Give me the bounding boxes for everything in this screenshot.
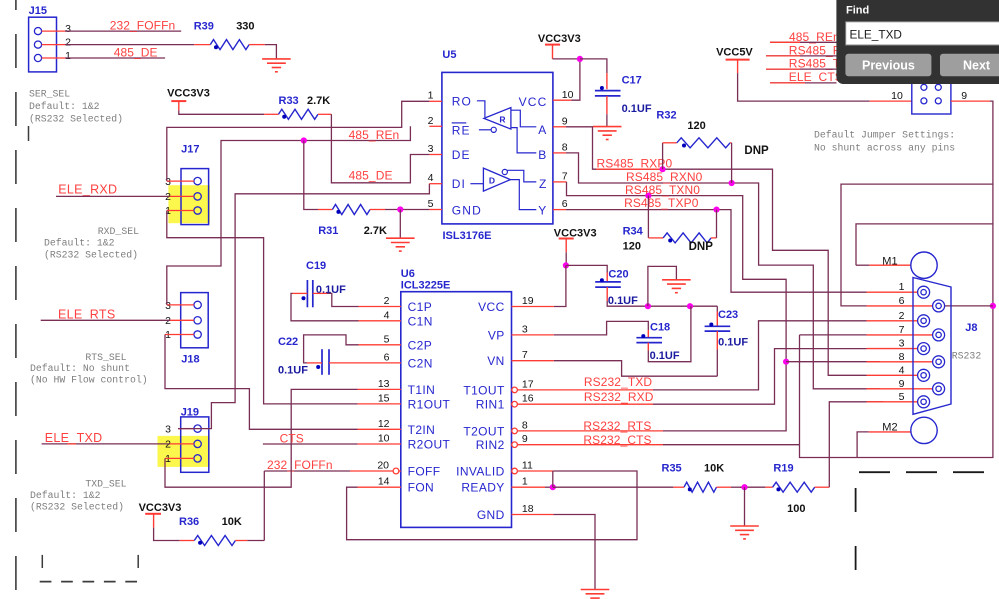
- sheet border tick B bottom: [137, 555, 139, 568]
- wire 485_REn stub top right: [770, 41, 837, 43]
- svg-text:(No HW Flow control): (No HW Flow control): [30, 375, 148, 386]
- svg-text:C18: C18: [650, 321, 670, 333]
- wire ground rail to C23 top: [716, 306, 718, 311]
- svg-text:11: 11: [522, 460, 533, 472]
- connector J18: [181, 293, 209, 348]
- J8 pin 1 stub: [867, 291, 918, 293]
- svg-text:ELE_CTS: ELE_CTS: [789, 70, 843, 84]
- svg-text:Previous: Previous: [862, 59, 915, 73]
- wire jumper pin9 staircase to J8 pin6: [841, 101, 993, 306]
- find dialog input box: [846, 22, 999, 45]
- J19 pin2 stub: [170, 443, 194, 445]
- svg-text:J15: J15: [29, 5, 47, 17]
- svg-text:RE: RE: [452, 124, 471, 138]
- svg-text:2: 2: [428, 115, 434, 127]
- svg-text:3: 3: [165, 176, 171, 188]
- wire VCC5V to jumper pin10: [738, 73, 870, 101]
- svg-text:10K: 10K: [704, 462, 724, 474]
- resistor R35: [673, 486, 684, 488]
- svg-text:5: 5: [899, 391, 905, 403]
- J8 pin 4 circle: [918, 369, 930, 381]
- svg-text:7: 7: [899, 324, 905, 336]
- svg-text:2: 2: [899, 310, 905, 322]
- svg-text:U6: U6: [401, 268, 415, 280]
- J8 pin 4 stub: [867, 374, 918, 376]
- svg-text:10: 10: [378, 433, 390, 445]
- svg-text:RS232_CTS: RS232_CTS: [583, 433, 651, 447]
- junction RTS TXN0 at J8 pin8: [783, 359, 789, 365]
- svg-text:485_DE: 485_DE: [114, 45, 158, 59]
- svg-text:4: 4: [384, 309, 390, 321]
- wire U6 GND to ground: [553, 515, 595, 590]
- junction RXP0 at R32: [660, 166, 666, 172]
- svg-text:Default Jumper Settings:: Default Jumper Settings:: [814, 130, 955, 141]
- svg-text:R34: R34: [623, 226, 644, 238]
- J8 pin 5 stub: [867, 401, 918, 403]
- svg-text:VP: VP: [488, 328, 505, 342]
- svg-text:1: 1: [165, 205, 171, 217]
- J17 pin1 stub: [167, 210, 194, 212]
- svg-text:READY: READY: [461, 481, 504, 495]
- J8 pin 1 circle: [918, 286, 930, 298]
- svg-text:9: 9: [522, 433, 528, 445]
- svg-text:8: 8: [899, 351, 905, 363]
- svg-text:CTS: CTS: [280, 431, 304, 445]
- svg-text:D: D: [489, 175, 495, 185]
- wire C22 left to U6 C2P: [307, 362, 322, 364]
- svg-text:18: 18: [522, 503, 534, 515]
- J8 pin 9 circle: [933, 383, 945, 395]
- wire M1 staircase: [992, 184, 994, 224]
- wire net 485_DE from J15.1: [65, 57, 165, 59]
- U5 receiver buffer R: [484, 108, 511, 130]
- J18 pin2 stub: [170, 319, 194, 321]
- svg-text:12: 12: [378, 418, 390, 430]
- M1 stub: [856, 264, 869, 266]
- svg-text:R39: R39: [194, 21, 214, 33]
- wire C19 right to U6 C1P: [313, 292, 327, 294]
- wire net 232_FOFFn to FOFF: [350, 470, 393, 472]
- sheet border dashed bottom-right vertical: [855, 488, 857, 599]
- svg-text:120: 120: [623, 241, 641, 253]
- U6 pin 19 stub VCC: [512, 306, 554, 308]
- wire net RS485_TXP0: [566, 210, 867, 293]
- svg-text:8: 8: [522, 419, 528, 431]
- svg-text:RS232_RXD: RS232_RXD: [584, 390, 654, 404]
- wire C22 right to U6 C2N: [329, 362, 367, 364]
- wire ELE_TXD to J19.2: [42, 443, 170, 445]
- junction VCC3V3 U6 node: [563, 262, 569, 268]
- U6 pin 2 stub C1P: [359, 306, 401, 308]
- svg-text:9: 9: [562, 115, 568, 127]
- svg-text:DE: DE: [452, 148, 471, 162]
- svg-text:5: 5: [384, 333, 390, 345]
- J8 pin 8 circle: [933, 356, 945, 368]
- wire net 485_DE R33 to U5 DE: [331, 114, 429, 183]
- svg-text:19: 19: [522, 295, 534, 307]
- wire VP to C18 top: [554, 321, 649, 335]
- svg-text:B: B: [538, 148, 546, 162]
- U6 pin 12 stub T2IN: [358, 428, 401, 430]
- U6 pin 9 RIN2 circle: [512, 442, 518, 448]
- capacitor C20: [595, 281, 621, 283]
- wire net RS485_RXP0: [566, 127, 867, 375]
- svg-text:C2N: C2N: [408, 356, 433, 370]
- svg-text:GND: GND: [477, 508, 505, 522]
- U6 pin 7 stub VN: [512, 360, 554, 362]
- svg-text:RS485_TXP0: RS485_TXP0: [624, 196, 699, 210]
- U5 pin 2 stub: [429, 125, 442, 127]
- svg-text:(RS232 Selected): (RS232 Selected): [30, 502, 124, 513]
- svg-text:Y: Y: [538, 203, 546, 217]
- svg-text:6: 6: [899, 295, 905, 307]
- svg-text:RIN2: RIN2: [476, 438, 505, 452]
- svg-text:ISL3176E: ISL3176E: [443, 230, 492, 242]
- svg-text:ELE_TXD: ELE_TXD: [850, 28, 902, 42]
- svg-text:1: 1: [899, 281, 905, 293]
- U6 pin 11 INVALID circle: [512, 468, 518, 474]
- U6 pin 16 RIN1 circle: [512, 401, 518, 407]
- wire ELE_RXD to J17.2: [56, 195, 170, 197]
- J8 pin 9 stub: [867, 388, 933, 390]
- wire net RS232_RTS to J8 pin8: [517, 430, 663, 432]
- wire 485_REn junction down to R31: [304, 141, 318, 210]
- svg-text:VCC: VCC: [478, 300, 505, 314]
- J8 pin 6 stub: [867, 305, 933, 307]
- svg-text:C1N: C1N: [408, 314, 433, 328]
- svg-text:0.1UF: 0.1UF: [718, 337, 748, 349]
- wire ELE_CTS stub: [770, 82, 837, 84]
- svg-text:2.7K: 2.7K: [364, 225, 387, 237]
- U6 pin 10 stub R2OUT: [358, 443, 401, 445]
- J8 mounting circle M1: [911, 252, 937, 278]
- U6 pin 4 stub C1N: [359, 320, 401, 322]
- svg-text:1: 1: [65, 50, 71, 62]
- svg-text:SER_SEL: SER_SEL: [29, 89, 70, 100]
- J8 pin 2 stub: [867, 320, 918, 322]
- ground at U6 GND: [581, 589, 610, 591]
- ground at R39: [262, 58, 291, 60]
- svg-text:8: 8: [562, 141, 568, 153]
- resistor R36: [180, 540, 195, 542]
- find dialog panel: [836, 0, 999, 84]
- svg-text:3: 3: [522, 323, 528, 335]
- wire J19.1 to T1IN: [165, 389, 358, 487]
- svg-text:0.1UF: 0.1UF: [278, 365, 308, 377]
- svg-text:RS232_RTS: RS232_RTS: [583, 419, 651, 433]
- svg-text:VCC: VCC: [519, 95, 548, 109]
- wire J15.2 to R39: [65, 44, 194, 46]
- svg-text:RXD_SEL: RXD_SEL: [98, 226, 139, 237]
- J19 pin3 stub: [178, 428, 194, 430]
- capacitor C23: [705, 325, 731, 327]
- ground at U5 pin5: [399, 210, 401, 238]
- svg-text:330: 330: [236, 21, 254, 33]
- svg-text:RS485_TXN0: RS485_TXN0: [625, 183, 700, 197]
- U6 pin 5 stub C2P: [359, 344, 401, 346]
- U6 pin 1 stub READY: [512, 486, 546, 488]
- wire net RS485_RXN0: [566, 153, 880, 389]
- wire J17.1 to U6 R1OUT: [167, 211, 358, 404]
- svg-text:3: 3: [165, 300, 171, 312]
- wire junction to ground: [744, 487, 746, 526]
- svg-text:DI: DI: [452, 177, 466, 191]
- svg-text:T1OUT: T1OUT: [463, 383, 505, 397]
- connector J8 body: [913, 278, 951, 415]
- J8 pin 5 circle: [918, 396, 930, 408]
- svg-text:120: 120: [687, 120, 705, 132]
- svg-text:J19: J19: [181, 406, 199, 418]
- capacitor C19: [306, 280, 308, 307]
- op-amp transceiver U5 box: [442, 72, 553, 224]
- junction TXP0 at R34: [713, 207, 719, 213]
- svg-text:Default: 1&2: Default: 1&2: [30, 490, 101, 501]
- U5 pin 4 stub: [429, 183, 442, 185]
- U5 pin 7 stub Z: [553, 181, 567, 183]
- svg-text:2.7K: 2.7K: [307, 95, 330, 107]
- wire VCC3V3 to C17: [580, 59, 607, 73]
- svg-text:C20: C20: [608, 268, 628, 280]
- junction RXN0 at R32: [729, 180, 735, 186]
- junction READY INVALID: [550, 484, 556, 490]
- wire C20 bottom to ground rail: [606, 287, 608, 301]
- wire net CTS to R2OUT: [263, 443, 358, 445]
- U6 pin 15 stub R1OUT: [358, 403, 401, 405]
- svg-text:3: 3: [899, 338, 905, 350]
- svg-text:ELE_RXD: ELE_RXD: [58, 183, 117, 197]
- svg-text:M1: M1: [882, 255, 897, 267]
- svg-text:J8: J8: [965, 322, 977, 334]
- svg-text:Default: No shunt: Default: No shunt: [30, 363, 130, 374]
- svg-text:0.1UF: 0.1UF: [316, 284, 346, 296]
- IC U6 box: [401, 292, 512, 528]
- highlight on J19 pins: [158, 436, 210, 467]
- svg-text:RS485_RXP0: RS485_RXP0: [597, 157, 673, 171]
- wire RS485 stub A: [766, 55, 837, 57]
- wire net RS485_TXN0: [567, 182, 787, 362]
- J8 pin 3 circle: [918, 343, 930, 355]
- svg-text:ELE_TXD: ELE_TXD: [45, 431, 103, 445]
- J8 pin 6 circle: [933, 300, 945, 312]
- sheet border dashed bottom-left: [40, 581, 137, 583]
- svg-text:3: 3: [165, 423, 171, 435]
- svg-text:3: 3: [65, 23, 71, 35]
- svg-text:2: 2: [384, 295, 390, 307]
- wire net RS232_CTS to J8 pin7: [517, 444, 663, 446]
- svg-text:485_DE: 485_DE: [349, 169, 393, 183]
- find dialog Next button: [940, 54, 999, 77]
- svg-text:1: 1: [522, 476, 528, 488]
- svg-text:C23: C23: [718, 309, 738, 321]
- wire net 485_REn to J18.3: [167, 126, 411, 305]
- svg-text:DNP: DNP: [689, 241, 714, 253]
- svg-text:1: 1: [165, 329, 171, 341]
- wire VCC3V3 to U6 VCC: [565, 252, 567, 265]
- svg-text:C2P: C2P: [408, 338, 433, 352]
- svg-text:R36: R36: [179, 516, 199, 528]
- svg-text:6: 6: [384, 351, 390, 363]
- wire U5 DI to J19.3: [178, 184, 429, 429]
- svg-text:Default: 1&2: Default: 1&2: [29, 101, 100, 112]
- U5 pin 10 stub: [553, 99, 571, 101]
- svg-text:10K: 10K: [222, 516, 242, 528]
- svg-text:0.1UF: 0.1UF: [608, 295, 638, 307]
- svg-text:R19: R19: [773, 462, 793, 474]
- svg-text:C17: C17: [622, 75, 642, 87]
- J8 pin 7 stub: [867, 334, 933, 336]
- jumper J16 box: [912, 81, 951, 115]
- svg-text:(RS232 Selected): (RS232 Selected): [29, 114, 123, 125]
- resistor R39: [194, 44, 210, 46]
- wire J17.3 to U5 RO: [167, 101, 430, 181]
- svg-text:J17: J17: [181, 144, 199, 156]
- U5 pin 5 stub: [429, 209, 442, 211]
- svg-text:R: R: [499, 114, 505, 124]
- junction R35 R19 ground: [741, 484, 747, 490]
- svg-text:T2IN: T2IN: [408, 423, 436, 437]
- svg-text:C22: C22: [278, 336, 298, 348]
- junction VCC3V3 node: [577, 56, 583, 62]
- wire R35 to R19: [740, 486, 765, 488]
- wire VCC3V3 to R33: [179, 110, 264, 114]
- svg-text:Find: Find: [846, 5, 869, 17]
- resistor R34 DNP: [647, 196, 649, 238]
- wire VCC3V3 to U5 VCC pin10: [553, 58, 580, 60]
- svg-text:232_FOFFn: 232_FOFFn: [267, 458, 333, 472]
- svg-text:7: 7: [522, 349, 528, 361]
- wire C17 to ground: [606, 96, 608, 114]
- junction at U5 GND: [397, 206, 403, 212]
- sheet border dashed left edge: [15, 0, 17, 599]
- svg-text:10: 10: [562, 89, 574, 101]
- connector J15: [29, 17, 57, 72]
- svg-text:Next: Next: [963, 59, 991, 73]
- svg-text:5: 5: [428, 198, 434, 210]
- svg-text:T2OUT: T2OUT: [463, 424, 505, 438]
- svg-text:6: 6: [562, 198, 568, 210]
- junction on 485_REn: [301, 137, 307, 143]
- junction ground rail B: [687, 303, 693, 309]
- wire R31 to U5 GND pin5: [385, 209, 429, 211]
- J19 pin1 stub: [165, 457, 194, 459]
- wire C19 left to U6 C1N: [293, 292, 308, 294]
- svg-text:DNP: DNP: [744, 145, 769, 157]
- wire READY to R35: [545, 486, 553, 488]
- junction at J8 pin6 right: [990, 303, 996, 309]
- U6 pin 20 FOFF circle: [393, 468, 399, 474]
- J15 pin2 stub: [42, 44, 65, 46]
- svg-text:VN: VN: [487, 354, 504, 368]
- wire INVALID loop to FON: [517, 470, 553, 472]
- jumper pin 9 stub: [951, 100, 990, 102]
- U5 pin 6 stub Y: [553, 209, 566, 211]
- junction TXN0 at R34: [645, 193, 651, 199]
- svg-text:485_REn: 485_REn: [349, 128, 400, 142]
- J15 pin3 stub: [42, 30, 65, 32]
- capacitor C22: [321, 349, 323, 375]
- svg-text:7: 7: [562, 170, 568, 182]
- svg-text:R31: R31: [318, 225, 338, 237]
- U6 pin 8 T2OUT circle: [512, 428, 518, 434]
- svg-text:9: 9: [961, 90, 967, 102]
- svg-text:J18: J18: [181, 353, 199, 365]
- capacitor C17: [595, 90, 621, 92]
- U5 pin 3 stub: [429, 154, 442, 156]
- wire net 232_FOFFn from J15.3: [65, 30, 181, 32]
- J18 pin1 stub: [165, 334, 194, 336]
- svg-text:2: 2: [65, 36, 71, 48]
- svg-text:(RS232 Selected): (RS232 Selected): [44, 250, 138, 261]
- resistor R32 DNP: [662, 143, 664, 169]
- J15 pin1 stub: [42, 57, 65, 59]
- svg-text:14: 14: [378, 476, 390, 488]
- svg-text:17: 17: [522, 378, 534, 390]
- M2 stub: [869, 431, 911, 433]
- svg-text:16: 16: [522, 393, 534, 405]
- svg-text:RS232_TXD: RS232_TXD: [584, 375, 652, 389]
- ground below C17: [593, 126, 622, 128]
- svg-text:ELE_RTS: ELE_RTS: [58, 308, 115, 322]
- svg-text:3: 3: [428, 143, 434, 155]
- wire R19 to J8 pin5: [829, 402, 883, 487]
- svg-text:T1IN: T1IN: [408, 383, 436, 397]
- svg-text:RIN1: RIN1: [476, 398, 505, 412]
- svg-text:R35: R35: [662, 462, 682, 474]
- svg-text:R33: R33: [279, 95, 299, 107]
- wire VCC3V3 to R36: [154, 528, 180, 541]
- wire ground rail riser: [648, 266, 677, 306]
- wire C18 bottom to ground rail: [647, 343, 649, 351]
- J8 pin 2 circle: [918, 315, 930, 327]
- wire net RS232_TXD to J8 pin2: [517, 389, 653, 391]
- U5 pin 8 stub B: [553, 152, 566, 154]
- connector J19: [181, 417, 209, 472]
- svg-text:10: 10: [891, 90, 903, 102]
- find dialog Previous button: [845, 54, 931, 77]
- svg-text:Z: Z: [539, 177, 546, 191]
- wire R36 to FOFFn branch: [247, 540, 264, 542]
- wire ELE_RTS to J18.2: [41, 319, 170, 321]
- wire J8 pin6 to junction: [945, 305, 993, 307]
- wire RS485 stub B: [766, 68, 837, 70]
- J8 mounting circle M2: [911, 417, 937, 443]
- svg-text:RTS_SEL: RTS_SEL: [85, 352, 126, 363]
- svg-text:0.1UF: 0.1UF: [650, 350, 680, 362]
- U5 pin 9 stub A: [553, 126, 566, 128]
- svg-text:RO: RO: [452, 95, 472, 109]
- svg-text:A: A: [538, 123, 546, 137]
- svg-text:R1OUT: R1OUT: [408, 397, 451, 411]
- svg-text:VCC3V3: VCC3V3: [167, 87, 210, 99]
- svg-text:4: 4: [899, 364, 905, 376]
- U6 pin 3 stub VP: [512, 334, 554, 336]
- J17 pin3 stub: [167, 180, 194, 182]
- svg-text:FON: FON: [408, 481, 435, 495]
- wire J18.1 to U6 T2IN: [165, 335, 358, 430]
- svg-text:13: 13: [378, 378, 390, 390]
- svg-text:15: 15: [378, 392, 390, 404]
- svg-text:4: 4: [428, 172, 434, 184]
- wire J8 pin8 stub line: [786, 361, 880, 363]
- svg-text:100: 100: [787, 503, 805, 515]
- svg-text:R2OUT: R2OUT: [408, 438, 451, 452]
- wire R39 to ground: [265, 45, 277, 59]
- U6 pin 14 stub FON: [358, 486, 401, 488]
- svg-text:VCC3V3: VCC3V3: [538, 33, 581, 45]
- wire net RS232_RXD to J8 pin3: [517, 403, 653, 405]
- svg-text:GND: GND: [452, 203, 482, 217]
- ground at C20 rail: [662, 279, 691, 281]
